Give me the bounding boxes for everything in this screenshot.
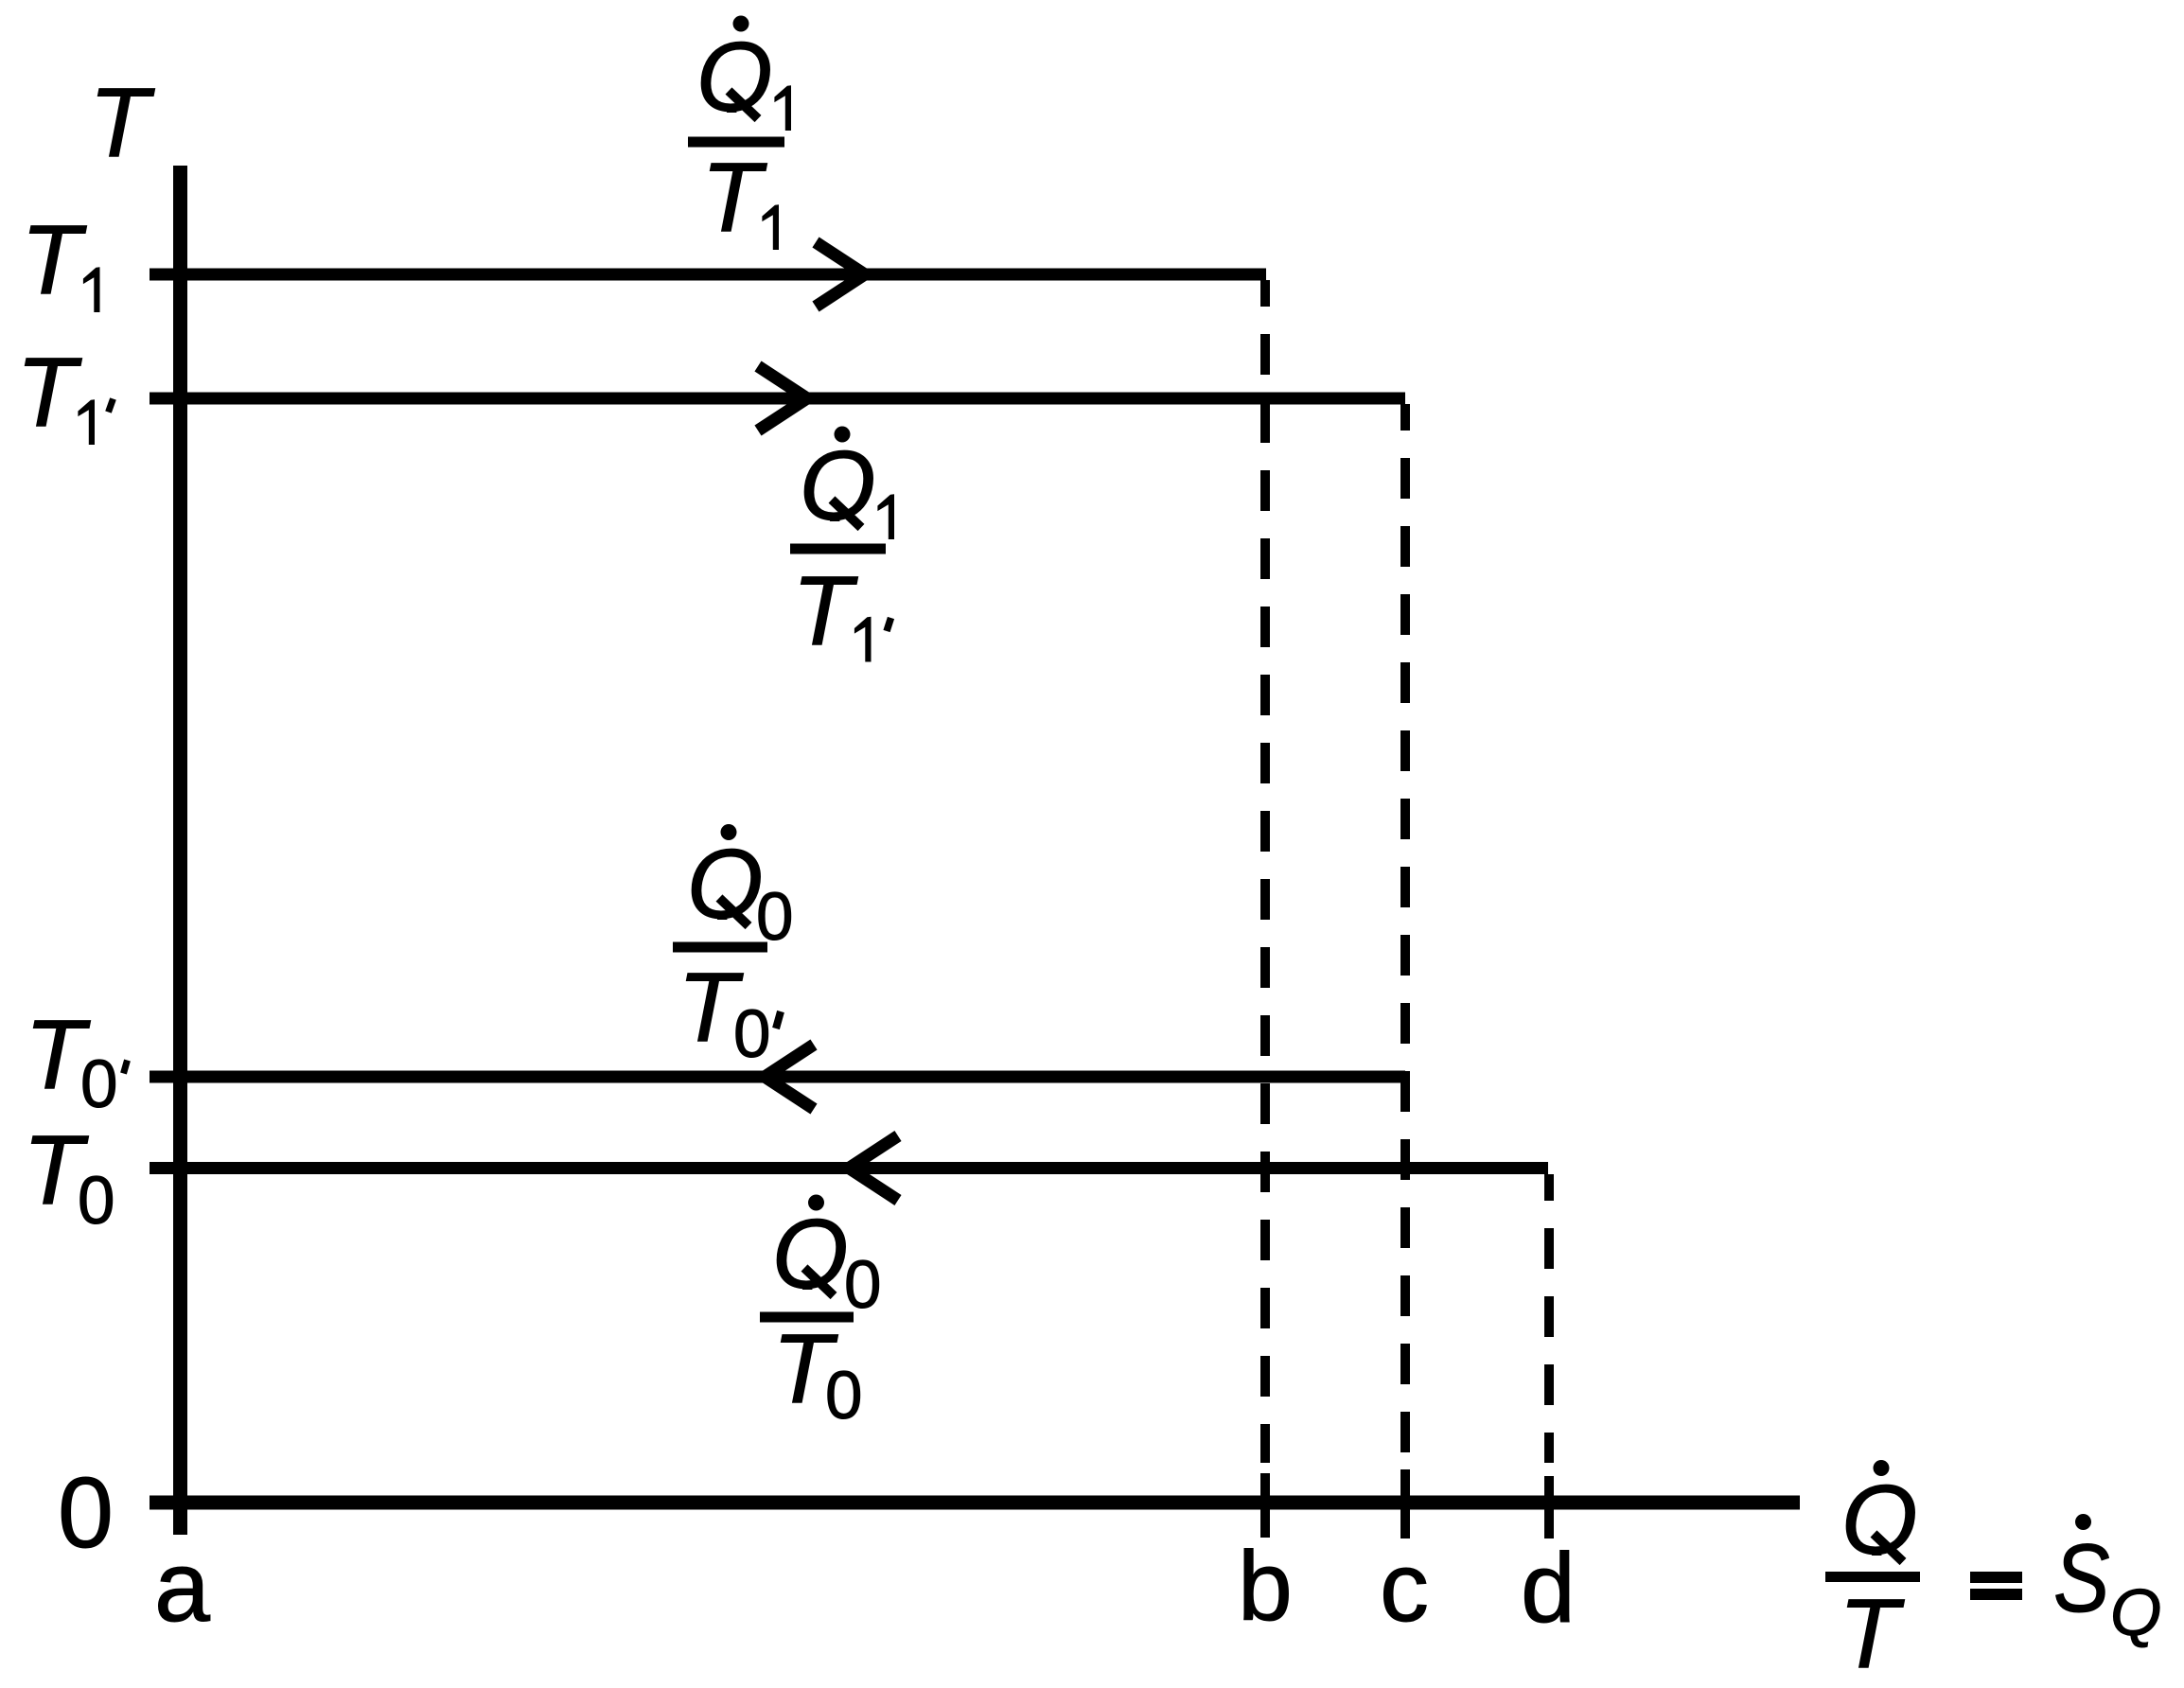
svg-text:T: T: [89, 68, 155, 178]
tail of Q (Q/T axis label): [1874, 1534, 1903, 1562]
fraction bar of Q0/T0': [673, 942, 767, 953]
tail of Q (Qdot1/T1): [729, 91, 758, 119]
label Q0/T0 under T0 line : dot of Qdot0: [808, 1195, 824, 1211]
tail of Q (Q1/T1'): [832, 500, 861, 528]
dashed line b: [1260, 280, 1270, 1463]
Q of Q1/T1': [800, 431, 876, 541]
arrow on T0 line: [849, 1136, 898, 1201]
fraction bar of Q1/T1': [790, 544, 886, 554]
svg-text:T: T: [16, 338, 82, 448]
Q of Qdot1/T1: [696, 23, 773, 132]
T1' isotherm line: [150, 393, 1405, 405]
subscript 1 of Q1: [774, 85, 791, 131]
y-axis: [173, 166, 187, 1535]
fraction bar of Q/T: [1825, 1572, 1920, 1582]
prime of T1' axis label: [109, 399, 114, 413]
subscript 1: [854, 617, 872, 662]
tail of Q (Q0/T0): [804, 1268, 834, 1296]
dot of Sdot: [2075, 1514, 2091, 1530]
label Q1/T1' under T1' line : dot of Qdot1: [835, 427, 851, 443]
fraction bar of Q1/T1: [688, 137, 784, 148]
svg-text:T: T: [792, 556, 858, 666]
label Q1/T1 over T1 line : dot of Qdot1: [733, 16, 749, 32]
tail of Q (Q0/T0'): [719, 898, 749, 926]
svg-text:0: 0: [78, 1164, 115, 1239]
dashed line d: [1544, 1174, 1554, 1463]
svg-text:0: 0: [80, 1047, 118, 1122]
dashed line c: [1400, 404, 1410, 1463]
svg-text:S: S: [2053, 1524, 2110, 1632]
x-axis label: dot of Qdot: [1874, 1460, 1890, 1476]
T0 isotherm line: [150, 1162, 1548, 1174]
prime of T0' axis label: [124, 1061, 128, 1074]
tick c: [1400, 1469, 1410, 1539]
T0' isotherm line: [150, 1071, 1405, 1083]
arrow on T1' line: [758, 366, 807, 431]
subscript 1: [877, 494, 894, 539]
svg-text:Q: Q: [2110, 1575, 2161, 1649]
svg-text:0: 0: [733, 997, 771, 1072]
Q of Q0/T0: [772, 1200, 849, 1310]
subscript 1 of T1 in fraction: [762, 204, 779, 250]
svg-text:b: b: [1238, 1532, 1293, 1642]
arrow on T1 line: [816, 242, 865, 307]
svg-text:T: T: [1839, 1579, 1905, 1688]
fraction bar of Q0/T0: [760, 1312, 854, 1323]
T1 isotherm line: [150, 269, 1266, 281]
svg-text:0: 0: [844, 1248, 882, 1323]
svg-text:a: a: [154, 1531, 210, 1643]
svg-text:T: T: [21, 205, 87, 315]
svg-text:0: 0: [825, 1359, 863, 1433]
Q of Q/T: [1841, 1466, 1918, 1575]
svg-text:0: 0: [58, 1457, 114, 1569]
Q of Q0/T0': [687, 830, 764, 940]
x-axis: [150, 1496, 1800, 1510]
label Q0/T0' over T0' line : dot of Qdot0: [721, 824, 737, 840]
svg-text:c: c: [1380, 1533, 1429, 1643]
svg-text:d: d: [1521, 1534, 1576, 1644]
prime of T0' in fraction: [776, 1011, 781, 1029]
tick b: [1260, 1473, 1270, 1538]
svg-text:T: T: [701, 143, 767, 253]
arrow on T0' line: [765, 1045, 814, 1109]
tick d: [1544, 1476, 1554, 1539]
equals sign: [1970, 1572, 2022, 1583]
prime of T1' in fraction: [887, 618, 891, 631]
